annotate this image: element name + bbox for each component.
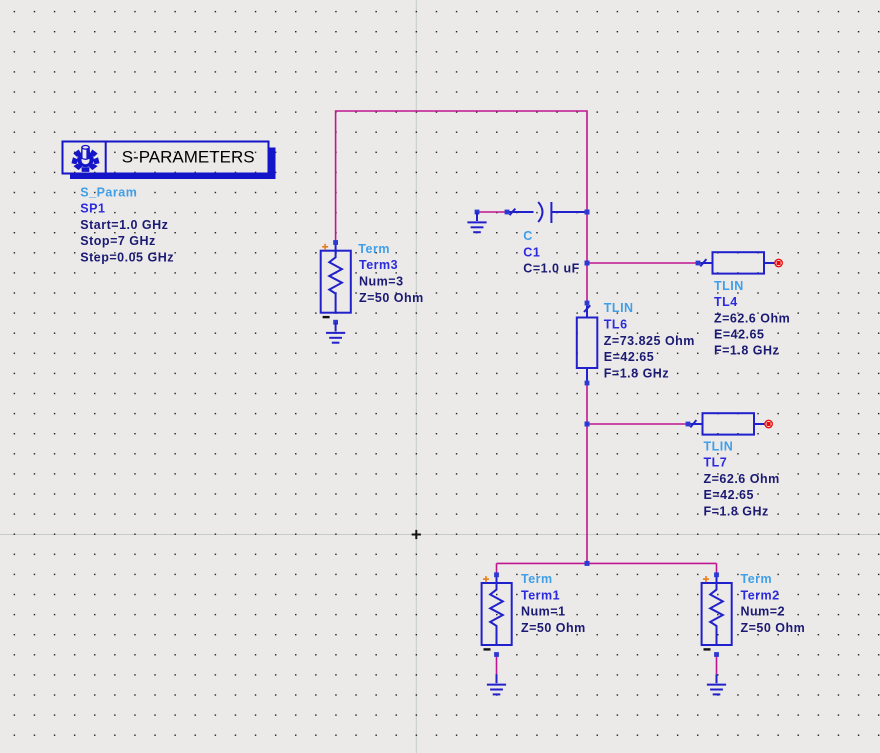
svg-text:Term: Term	[741, 572, 773, 586]
svg-text:S-PARAMETERS: S-PARAMETERS	[122, 147, 255, 166]
svg-text:C=1.0 uF: C=1.0 uF	[523, 262, 579, 276]
svg-text:Start=1.0 GHz: Start=1.0 GHz	[80, 218, 168, 232]
svg-text:F=1.8 GHz: F=1.8 GHz	[704, 505, 769, 519]
svg-text:Num=2: Num=2	[741, 605, 786, 619]
svg-text:TL4: TL4	[714, 295, 738, 309]
svg-text:Z=50 Ohm: Z=50 Ohm	[359, 291, 424, 305]
svg-text:Z=73.825 Ohm: Z=73.825 Ohm	[604, 334, 695, 348]
svg-text:TLIN: TLIN	[704, 439, 734, 453]
svg-text:Stop=7 GHz: Stop=7 GHz	[80, 234, 156, 248]
svg-text:Num=1: Num=1	[521, 605, 566, 619]
svg-text:Z=50 Ohm: Z=50 Ohm	[741, 621, 806, 635]
svg-text:Z=62.6 Ohm: Z=62.6 Ohm	[714, 311, 790, 325]
svg-text:E=42.65: E=42.65	[604, 350, 654, 364]
svg-text:S_Param: S_Param	[80, 185, 137, 199]
svg-text:Num=3: Num=3	[359, 275, 404, 289]
svg-text:E=42.65: E=42.65	[704, 488, 754, 502]
svg-text:Term1: Term1	[521, 588, 560, 602]
svg-text:C: C	[523, 229, 533, 243]
svg-text:Term3: Term3	[359, 258, 398, 272]
svg-text:Term: Term	[358, 242, 390, 256]
svg-text:E=42.65: E=42.65	[714, 328, 764, 342]
svg-text:Z=50 Ohm: Z=50 Ohm	[521, 621, 586, 635]
svg-text:TL7: TL7	[704, 456, 728, 470]
svg-text:Term2: Term2	[741, 588, 780, 602]
svg-text:C1: C1	[523, 245, 540, 259]
svg-text:TLIN: TLIN	[714, 279, 744, 293]
svg-text:F=1.8 GHz: F=1.8 GHz	[714, 344, 779, 358]
svg-text:Z=62.6 Ohm: Z=62.6 Ohm	[704, 472, 780, 486]
svg-text:Step=0.05 GHz: Step=0.05 GHz	[80, 251, 174, 265]
svg-text:TL6: TL6	[604, 318, 628, 332]
svg-text:TLIN: TLIN	[604, 301, 634, 315]
svg-text:Term: Term	[521, 572, 553, 586]
svg-text:F=1.8 GHz: F=1.8 GHz	[604, 366, 669, 380]
svg-text:SP1: SP1	[80, 202, 105, 216]
